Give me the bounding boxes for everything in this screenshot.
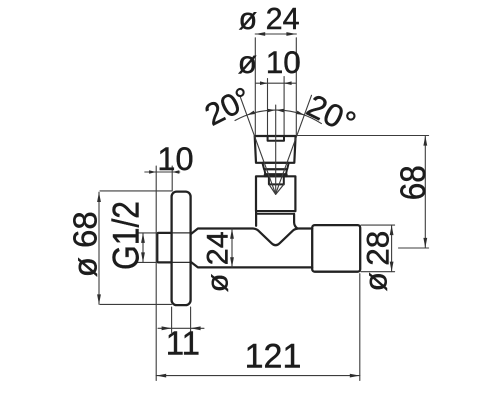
valve body <box>256 176 295 211</box>
dimension ø24 top: extension lines <box>255 38 296 135</box>
arrow arc center right <box>276 108 284 112</box>
arrow ø24 left <box>255 32 265 36</box>
arrow 68 bottom <box>423 238 427 248</box>
G1/2 thread stub <box>157 233 171 263</box>
arrow 10 right <box>172 170 179 174</box>
body neck left edge <box>255 211 257 226</box>
fan line right 20deg <box>276 95 312 194</box>
arrow ø68 bottom <box>97 294 101 304</box>
wall rosette <box>172 192 191 306</box>
dimension 121: extension line right <box>359 274 361 381</box>
arrow 11 right <box>191 326 201 330</box>
pipe bottom <box>191 262 312 267</box>
fan line left 20deg <box>240 95 276 194</box>
bonnet cone <box>262 163 288 169</box>
drill cone <box>269 185 284 195</box>
arrow 121 right <box>350 374 360 378</box>
arrow arc left outer <box>246 111 255 117</box>
arrow G12 bottom <box>141 252 145 262</box>
dimension ø68: extension lines <box>100 191 172 305</box>
arrow G12 top <box>141 233 145 243</box>
dimension 10 left: dim line <box>145 171 180 173</box>
body neck right edge <box>294 214 297 229</box>
arrow ø24pipe top <box>230 229 234 239</box>
pipe top with V transition <box>191 229 312 246</box>
arrow arc right outer <box>296 111 305 117</box>
svg-text:28: 28 <box>359 231 395 266</box>
arrow ø10 right <box>284 81 292 85</box>
dimension ø24 pipe: dim line <box>231 229 233 268</box>
handle knob <box>255 136 296 163</box>
arrow 10 left <box>149 170 156 174</box>
dimension ø28: extension lines <box>361 225 395 272</box>
arrow ø28 bottom <box>390 262 394 272</box>
arrow 11 left <box>162 326 172 330</box>
dimension 68 right: extension lines <box>298 136 429 249</box>
dimension ø10: extension lines <box>268 77 285 135</box>
svg-text:121: 121 <box>245 338 302 376</box>
svg-text:11: 11 <box>166 324 200 361</box>
arrow 121 left <box>156 374 166 378</box>
dimension 11: extension lines <box>172 307 191 333</box>
arrow ø10 left <box>260 81 268 85</box>
vertical centerline <box>275 105 277 194</box>
dimension 10 left: extension lines <box>156 166 172 381</box>
arrow ø68 top <box>97 192 101 202</box>
dimension G1/2: extension lines <box>137 233 156 263</box>
dimension ø24 top: dim line <box>255 33 296 35</box>
svg-text:ø: ø <box>358 272 394 291</box>
svg-text:68: 68 <box>394 165 433 200</box>
dimension 68 right: dim line <box>424 136 426 248</box>
bonnet flange <box>265 174 287 176</box>
dimension ø28: dim line <box>391 225 393 272</box>
arrow ø28 top <box>390 225 394 235</box>
arrow ø24pipe bottom <box>230 257 234 267</box>
angle arc <box>235 110 321 124</box>
svg-text:ø 24: ø 24 <box>239 2 300 36</box>
stem notch <box>269 176 284 184</box>
bonnet nut <box>264 169 287 174</box>
svg-text:ø 68: ø 68 <box>66 211 103 277</box>
dimension ø68: dim line <box>98 192 100 304</box>
pipe behind rosette <box>172 233 191 263</box>
svg-text:20°: 20° <box>199 80 257 132</box>
svg-text:ø 10: ø 10 <box>238 44 301 80</box>
arrow 68 top <box>423 136 427 146</box>
dimension G1/2: dim line <box>142 233 144 263</box>
svg-text:20°: 20° <box>301 87 362 141</box>
dimension 121: dim line <box>156 375 360 377</box>
body groove <box>256 213 294 215</box>
arrow arc center left <box>267 108 275 112</box>
dimension 11: dim line <box>158 327 204 329</box>
dimension ø10: dim line <box>256 82 296 84</box>
svg-text:10: 10 <box>157 141 193 177</box>
outlet knob <box>312 225 360 272</box>
svg-text:ø 24: ø 24 <box>202 231 235 292</box>
handle top notch <box>268 136 284 141</box>
arrowheads <box>97 32 427 377</box>
arrow ø24 right <box>286 32 296 36</box>
svg-text:G1/2: G1/2 <box>105 201 146 270</box>
